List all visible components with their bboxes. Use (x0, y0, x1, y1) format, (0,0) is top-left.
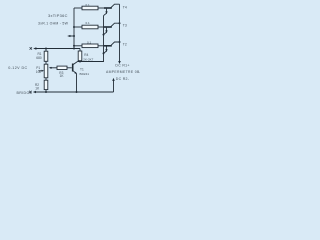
wire bus A vertical (73, 8, 75, 49)
svg-text:10k: 10k (36, 70, 42, 74)
arrowhead T4 collector (105, 11, 107, 14)
junction dot bus C R4 (79, 61, 81, 63)
wire terminal2 vertical (113, 80, 115, 93)
wire T1 emitter drop (76, 74, 78, 93)
svg-text:0-12V DC: 0-12V DC (8, 66, 27, 70)
arrowhead terminal2 up (112, 78, 115, 81)
wire R4 bottom lead (79, 60, 81, 63)
transistor T2 base bar (104, 45, 112, 47)
resistor R7 0.1 ohm row1 (82, 6, 98, 10)
svg-text:3xTIP36C: 3xTIP36C (48, 13, 68, 18)
svg-text:T2: T2 (123, 42, 127, 46)
wire row3 left lead (74, 45, 82, 47)
arrowhead T3 collector (105, 30, 107, 33)
arrowhead bottom rail left terminal (33, 91, 36, 93)
wire R1 top lead (45, 49, 47, 52)
wire P1 wiper annotation arrow line (39, 70, 43, 72)
junction dot top rail bus A (73, 48, 75, 50)
wire row2 left lead (74, 26, 82, 28)
resistor R2 (44, 80, 48, 89)
svg-text:0.1: 0.1 (86, 3, 91, 7)
wire T4 collector drop (104, 9, 107, 16)
arrowhead P1 wiper pointing right (42, 70, 45, 72)
wire arrow feed to bus A (69, 35, 75, 37)
resistor R1 (44, 51, 48, 61)
transistor T1 base bar (72, 64, 74, 72)
wire R1 to P1 lead (45, 61, 47, 64)
wire R4 top lead (79, 49, 81, 52)
junction dot bus A feed (73, 35, 75, 37)
potentiometer P1 body (44, 64, 48, 78)
wire row1 right lead (98, 7, 104, 9)
junction dot bottom rail R2 (45, 91, 47, 93)
wire P1 to R2 lead (45, 78, 47, 80)
transistor T4 base bar (104, 7, 112, 9)
svg-text:DC R2-: DC R2- (116, 77, 130, 81)
wire T4 emitter to bus B (111, 4, 120, 8)
transistor T3 base bar (104, 26, 112, 28)
junction dot bus B T3 (119, 22, 121, 24)
svg-text:BRIDGE: BRIDGE (17, 91, 33, 95)
svg-text:DC R1+: DC R1+ (115, 64, 129, 68)
wire bottom rail (34, 91, 114, 93)
wire T3 collector drop (104, 28, 107, 35)
svg-text:T1: T1 (80, 67, 84, 71)
wire row1 left lead (74, 7, 82, 9)
svg-text:0.1: 0.1 (86, 21, 91, 25)
wire T1 emitter diagonal (73, 71, 76, 74)
junction dot bus B T2 (119, 41, 121, 43)
wire top rail (35, 48, 81, 50)
arrowhead T1 emitter (74, 72, 76, 74)
resistor R5 0.1 ohm row3 (82, 44, 98, 48)
svg-text:3xR.1 OHM - 5W: 3xR.1 OHM - 5W (38, 21, 69, 25)
junction dot bus C T3 (103, 34, 105, 36)
wire wiper to R3 (51, 67, 58, 69)
junction dot bus A row2 (73, 26, 75, 28)
junction dot wiper line (50, 67, 52, 69)
svg-text:BD241: BD241 (80, 72, 90, 76)
background (0, 0, 140, 100)
wire R2 bottom lead (45, 90, 47, 92)
svg-text:AMPERMETRE 0BA: AMPERMETRE 0BA (106, 70, 140, 74)
resistor R4 (78, 51, 82, 61)
arrowhead bus B output terminal (118, 61, 121, 64)
resistor R6 0.1 ohm row2 (82, 25, 98, 29)
arrowhead T2 collector (105, 49, 107, 52)
junction dot bottom rail T1 emitter (76, 91, 78, 93)
wire bus C collector bus (78, 16, 104, 62)
junction dot bus C T2 (103, 52, 105, 54)
wire T2 collector drop (104, 46, 107, 53)
resistor R3 (57, 66, 67, 69)
arrowhead top rail left terminal (33, 47, 36, 49)
x-mark bottom rail terminal (29, 91, 31, 93)
svg-text:T4: T4 (123, 6, 127, 10)
wire T3 emitter to bus B (111, 23, 120, 27)
wire row2 right lead (98, 26, 104, 28)
svg-text:680: 680 (36, 56, 42, 60)
wire T2 emitter to bus B (111, 42, 120, 46)
svg-text:0.1: 0.1 (87, 41, 92, 45)
junction dot bus A row3 (73, 45, 75, 47)
junction dot top rail R1 (45, 48, 47, 50)
wire T1 collector diagonal (73, 62, 77, 65)
svg-text:T3: T3 (123, 24, 127, 28)
wire bus B vertical (119, 4, 121, 62)
arrowhead wiper output pointing left (49, 67, 52, 69)
wire row3 right lead (98, 45, 104, 47)
x-mark top rail terminal (30, 47, 32, 49)
svg-text:2K-2K7: 2K-2K7 (83, 57, 93, 61)
arrowhead feed to bus A (67, 35, 70, 37)
wire R3 to T1 base (67, 67, 72, 69)
